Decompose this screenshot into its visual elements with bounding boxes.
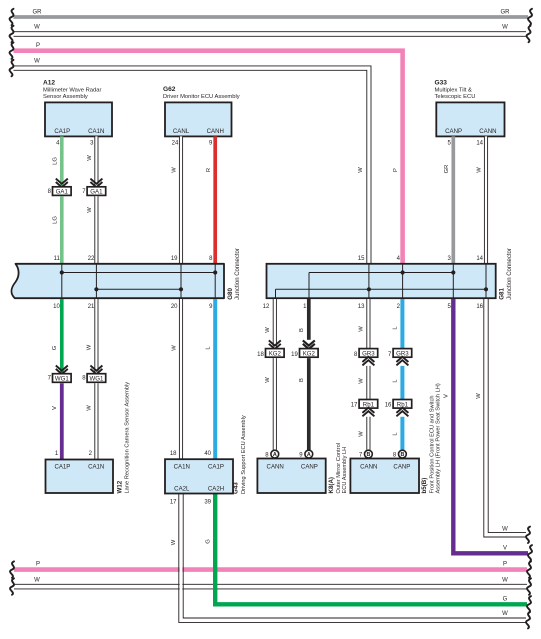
svg-text:WG1: WG1	[89, 376, 103, 383]
svg-text:P: P	[36, 562, 40, 568]
svg-text:19: 19	[171, 256, 178, 262]
ECU box G62 Driver Monitor ECU Assembly	[163, 86, 240, 136]
wire L from GR3 to connector Rb1	[393, 366, 403, 400]
svg-text:1: 1	[55, 451, 59, 457]
wire LG from GA1 to G80 pin 11	[53, 196, 62, 264]
svg-text:W: W	[358, 326, 364, 332]
joint A pin 9 circle	[299, 450, 312, 458]
wire B from KG2 to joint A pin 9	[299, 358, 309, 450]
wire W from G43 pin 17 down and right to edge	[170, 494, 530, 629]
svg-text:Millimeter Wave Radar: Millimeter Wave Radar	[43, 87, 101, 93]
svg-text:CANN: CANN	[267, 463, 284, 470]
svg-text:18: 18	[170, 451, 177, 457]
svg-text:G80: G80	[227, 288, 234, 300]
wire W from G62 CANL pin 24 to G80 pin 19	[171, 136, 183, 264]
wire G from G80 pin 10 to connector WG1	[52, 299, 62, 374]
bus GR (top) with break symbols	[10, 9, 532, 25]
G81 internal wire pin 15-13	[368, 264, 370, 298]
ECU box W12 Lane Recognition Camera Sensor Assembly	[46, 382, 131, 494]
svg-text:Assembly LH (Front Power Seat: Assembly LH (Front Power Seat Switch LH)	[436, 383, 442, 493]
svg-text:1: 1	[303, 304, 307, 310]
wire W from G81 pin 16 down and right to edge	[476, 299, 530, 543]
svg-text:18: 18	[257, 352, 264, 358]
svg-text:7: 7	[82, 189, 86, 195]
svg-text:CANP: CANP	[301, 463, 318, 470]
svg-text:B: B	[299, 378, 305, 382]
svg-text:G81: G81	[499, 288, 506, 300]
G80 internal bus row 2	[96, 288, 181, 290]
wire W from A12 CA1N pin 3 to connector GA1	[87, 136, 98, 187]
bus W (top, 2nd) with break symbols	[10, 25, 531, 43]
svg-text:G62: G62	[163, 86, 176, 93]
wire B from G81 pin 1 to connector KG2	[299, 299, 309, 340]
G80 junction dot pin 19	[179, 287, 183, 291]
svg-text:GR: GR	[33, 10, 43, 16]
svg-text:V: V	[52, 406, 58, 410]
svg-text:G: G	[206, 539, 212, 544]
svg-text:W: W	[358, 167, 364, 173]
wire GR from G33 CANP pin 5 to G81 pin 3	[444, 136, 453, 264]
svg-text:W: W	[502, 25, 508, 31]
svg-text:W: W	[502, 611, 508, 617]
connector Rb1 pin 17 with chevron below	[351, 400, 378, 417]
connector KG2 pin 18 with chevron	[257, 340, 284, 357]
wire W from WG1 to W12 CA1N pin 2	[87, 383, 99, 459]
svg-text:CA1N: CA1N	[88, 463, 104, 470]
svg-text:W: W	[34, 58, 40, 64]
svg-text:G: G	[503, 596, 508, 602]
G80 junction dot pin 8	[213, 270, 217, 274]
svg-text:16: 16	[476, 304, 483, 310]
G80 internal wire pin 8-9	[214, 264, 216, 298]
G81 junction dot pin 4	[401, 270, 405, 274]
connector KG2 pin 19 with heavy chevron	[291, 340, 318, 357]
svg-text:7: 7	[48, 376, 52, 382]
wire L from G80 pin 9 to G43 pin 40	[204, 299, 215, 459]
wire W from Rb1 to joint B pin 7	[358, 417, 370, 450]
svg-text:W: W	[265, 327, 271, 333]
svg-text:17: 17	[170, 500, 177, 506]
svg-text:G33: G33	[435, 79, 448, 86]
wire V from WG1 to W12 CA1P pin 1	[52, 383, 62, 459]
svg-text:7: 7	[388, 352, 392, 358]
svg-text:ECU Assembly LH: ECU Assembly LH	[342, 447, 348, 494]
svg-text:V: V	[503, 546, 507, 552]
G81 junction dot pin 16	[484, 287, 488, 291]
G81 junction dot pin 3	[451, 270, 455, 274]
svg-text:12: 12	[263, 304, 270, 310]
svg-text:W: W	[172, 167, 178, 173]
svg-text:4: 4	[397, 256, 401, 262]
svg-text:W: W	[34, 25, 40, 31]
svg-text:8: 8	[82, 376, 86, 382]
svg-text:16: 16	[385, 403, 392, 409]
svg-text:K8(A): K8(A)	[328, 477, 335, 494]
wire V from G81 pin 5 down and right to edge	[443, 299, 532, 562]
svg-text:3: 3	[90, 141, 94, 147]
G81 internal wire pin 4-2	[402, 264, 404, 298]
svg-text:W: W	[477, 167, 483, 173]
svg-text:P: P	[36, 43, 40, 49]
G81 internal wire pin 3-5	[452, 264, 454, 298]
svg-text:9: 9	[209, 141, 213, 147]
svg-text:9: 9	[209, 304, 213, 310]
G81 internal wire pin 1 stub	[308, 273, 310, 299]
connector Rb1 pin 16 with chevron below	[385, 400, 412, 417]
wire L from G81 pin 2 to connector GR3	[393, 299, 403, 349]
svg-text:19: 19	[291, 352, 298, 358]
svg-text:5: 5	[447, 141, 451, 147]
svg-text:LG: LG	[53, 157, 59, 165]
svg-text:L: L	[393, 432, 399, 436]
svg-text:W: W	[502, 527, 508, 533]
svg-text:Junction Connector: Junction Connector	[235, 248, 241, 300]
svg-text:CA1P: CA1P	[54, 128, 70, 135]
G80 internal wire pin 19-20	[180, 264, 182, 298]
svg-text:W12: W12	[117, 480, 124, 493]
svg-text:14: 14	[476, 256, 483, 262]
svg-text:Driving Support ECU Assembly: Driving Support ECU Assembly	[241, 415, 247, 494]
svg-text:Driver Monitor ECU Assembly: Driver Monitor ECU Assembly	[163, 94, 240, 100]
svg-text:14: 14	[476, 141, 483, 147]
svg-text:W: W	[476, 393, 482, 399]
G81 junction dot pin 13	[367, 287, 371, 291]
svg-text:CANP: CANP	[393, 463, 410, 470]
svg-text:KG2: KG2	[269, 351, 282, 358]
connector GR3 pin 7 with chevron below	[388, 349, 412, 366]
svg-text:CA1P: CA1P	[208, 463, 224, 470]
wire W from G80 pin 21 to connector WG1	[87, 299, 99, 374]
wire W from G33 CANN pin 14 to G81 pin 14	[476, 136, 487, 264]
svg-text:Multiplex Tilt &: Multiplex Tilt &	[435, 87, 473, 93]
wire W from G81 pin 13 to connector GR3	[358, 299, 370, 349]
svg-text:W: W	[502, 577, 508, 583]
svg-text:20: 20	[171, 304, 178, 310]
joint B pin 7 circle	[359, 450, 372, 458]
connector WG1 pin 7 with chevron	[48, 366, 71, 383]
junction connector G80 band	[11, 264, 224, 298]
svg-text:b5(B): b5(B)	[421, 478, 428, 494]
svg-text:24: 24	[172, 141, 179, 147]
svg-text:A: A	[273, 452, 277, 458]
svg-text:11: 11	[54, 256, 61, 262]
svg-text:W: W	[34, 577, 40, 583]
svg-text:CANN: CANN	[479, 128, 496, 135]
svg-text:B: B	[400, 452, 404, 458]
svg-text:10: 10	[53, 304, 60, 310]
joint A pin 8 circle	[265, 450, 278, 458]
svg-text:W: W	[87, 155, 93, 161]
svg-text:CANL: CANL	[173, 128, 190, 135]
junction connector G81 band	[267, 264, 496, 298]
svg-text:W: W	[87, 344, 93, 350]
svg-text:39: 39	[204, 500, 211, 506]
G80 internal bus row 1	[62, 272, 215, 274]
svg-text:Front Position Control ECU and: Front Position Control ECU and Switch	[429, 395, 435, 493]
svg-text:Telescopic ECU: Telescopic ECU	[435, 94, 476, 100]
svg-text:3: 3	[447, 256, 451, 262]
ECU box G43 Driving Support ECU Assembly	[165, 415, 247, 494]
bus W (top, 4th) turning down to G81 pin 15	[10, 58, 371, 264]
connector WG1 pin 8 with chevron	[82, 366, 105, 383]
svg-text:CANH: CANH	[207, 128, 224, 135]
ECU box b5(B) Front Position Control ECU and Switch Assembly LH	[350, 383, 441, 493]
svg-text:CA1N: CA1N	[88, 128, 104, 135]
G81 internal wire pin 12 stub	[275, 289, 277, 298]
wire L from Rb1 to joint B pin 8	[393, 417, 403, 450]
wire R from G62 CANH pin 9 to G80 pin 8	[206, 136, 215, 264]
wire W from G80 pin 20 to G43 pin 18	[170, 299, 183, 459]
joint B pin 8 circle	[393, 450, 406, 458]
svg-text:8: 8	[48, 189, 52, 195]
svg-text:17: 17	[351, 403, 358, 409]
wire G from G43 pin 39 down and right to edge	[204, 494, 531, 613]
G80 internal wire pin 22-21	[95, 264, 97, 298]
svg-text:22: 22	[88, 256, 95, 262]
svg-text:15: 15	[358, 256, 365, 262]
svg-text:CA1P: CA1P	[54, 463, 70, 470]
svg-text:CANP: CANP	[445, 128, 462, 135]
svg-text:40: 40	[204, 451, 211, 457]
svg-text:G43: G43	[233, 482, 240, 494]
svg-text:W: W	[358, 378, 364, 384]
svg-text:4: 4	[56, 141, 60, 147]
svg-text:Lane Recognition Camera Sensor: Lane Recognition Camera Sensor Assembly	[125, 382, 131, 494]
svg-text:B: B	[299, 328, 305, 332]
svg-text:CA2L: CA2L	[174, 486, 190, 493]
svg-text:8: 8	[354, 352, 358, 358]
bus W (bottom) with break symbols	[10, 577, 531, 594]
svg-text:W: W	[171, 539, 177, 545]
connector GA1 pin 8 with chevron	[48, 179, 71, 196]
svg-text:13: 13	[358, 304, 365, 310]
svg-text:L: L	[206, 346, 212, 350]
svg-text:CA2H: CA2H	[208, 486, 224, 493]
svg-text:LG: LG	[53, 216, 59, 224]
svg-text:KG2: KG2	[303, 351, 316, 358]
svg-text:G: G	[52, 345, 58, 350]
svg-text:P: P	[503, 562, 507, 568]
svg-text:GA1: GA1	[90, 189, 103, 196]
G81 internal wire pin 14-16	[485, 264, 487, 298]
ECU box G33 Multiplex Tilt &amp; Telescopic ECU	[435, 79, 505, 136]
wire W from GR3 to connector Rb1	[358, 366, 370, 400]
svg-text:V: V	[443, 394, 449, 398]
svg-text:21: 21	[88, 304, 95, 310]
svg-text:CA1N: CA1N	[174, 463, 190, 470]
svg-text:2: 2	[89, 451, 93, 457]
svg-text:L: L	[393, 379, 399, 383]
svg-text:CANN: CANN	[360, 463, 377, 470]
svg-text:W: W	[87, 405, 93, 411]
svg-text:GR: GR	[444, 165, 450, 174]
G80 junction dot pin 11	[60, 270, 64, 274]
ECU box A12 Millimeter Wave Radar Sensor Assembly	[43, 79, 112, 136]
svg-text:W: W	[87, 207, 93, 213]
bus P (top, 3rd) turning down to G81 pin 4	[10, 43, 403, 265]
wire W from KG2 to joint A pin 8	[265, 358, 277, 450]
svg-text:B: B	[366, 452, 370, 458]
G80 junction dot pin 22	[94, 287, 98, 291]
svg-text:R: R	[206, 168, 212, 172]
svg-text:W: W	[171, 345, 177, 351]
connector GA1 pin 7 with chevron	[82, 179, 105, 196]
connector GR3 pin 8 with chevron below	[354, 349, 378, 366]
wire W from G81 pin 12 to connector KG2	[265, 299, 277, 349]
wire W from GA1 to G80 pin 22	[87, 196, 98, 264]
ECU box K8(A) Outer Mirror Control ECU Assembly LH	[257, 443, 348, 494]
wire LG from A12 CA1P pin 4 to connector GA1	[53, 136, 62, 187]
G81 internal bus row 2	[276, 288, 487, 290]
svg-text:L: L	[393, 326, 399, 330]
svg-text:WG1: WG1	[55, 376, 69, 383]
svg-text:5: 5	[447, 304, 451, 310]
svg-text:8: 8	[209, 256, 213, 262]
svg-text:2: 2	[397, 304, 401, 310]
svg-text:Outer Mirror Control: Outer Mirror Control	[336, 443, 342, 494]
bus P (bottom) with break symbols	[10, 561, 531, 577]
svg-text:W: W	[358, 431, 364, 437]
svg-text:A: A	[307, 452, 311, 458]
svg-text:Sensor Assembly: Sensor Assembly	[43, 94, 88, 100]
svg-text:GA1: GA1	[56, 189, 69, 196]
svg-text:A12: A12	[43, 79, 55, 86]
svg-text:P: P	[393, 168, 399, 172]
G81 internal bus row 1	[309, 272, 453, 274]
svg-text:W: W	[265, 377, 271, 383]
svg-text:Junction Connector: Junction Connector	[507, 248, 513, 300]
svg-text:GR: GR	[501, 10, 511, 16]
G80 internal wire pin 11-10	[61, 264, 63, 298]
